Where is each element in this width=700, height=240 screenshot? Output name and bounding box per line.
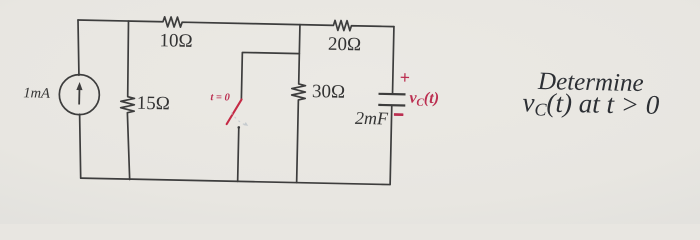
svg-text:t = 0: t = 0 (210, 92, 230, 103)
svg-text:1mA: 1mA (23, 85, 50, 102)
svg-text:vC(t): vC(t) (409, 89, 439, 109)
svg-text:2mF: 2mF (355, 108, 389, 129)
svg-text:+: + (400, 67, 411, 87)
svg-text:30Ω: 30Ω (312, 81, 346, 103)
svg-text:20Ω: 20Ω (328, 34, 362, 56)
svg-text:15Ω: 15Ω (137, 93, 171, 115)
svg-text:10Ω: 10Ω (159, 30, 193, 52)
